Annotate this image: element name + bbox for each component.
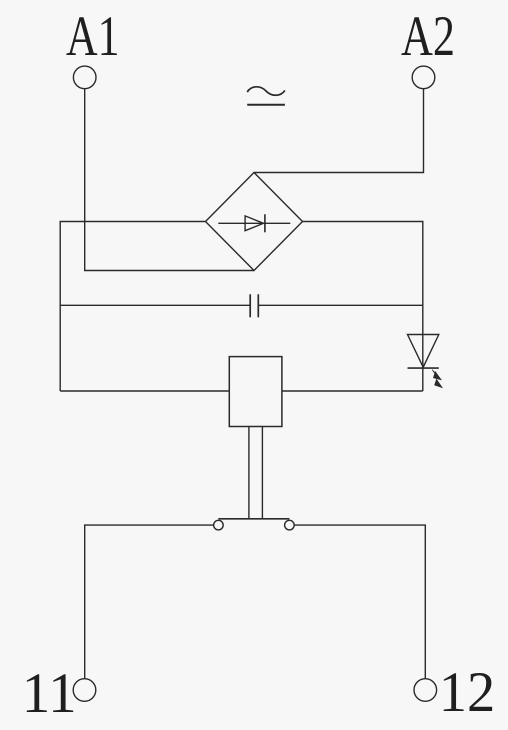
svg-text:A1: A1	[66, 5, 120, 68]
svg-text:A2: A2	[401, 5, 455, 68]
svg-text:11: 11	[22, 662, 77, 725]
svg-text:12: 12	[439, 661, 496, 724]
